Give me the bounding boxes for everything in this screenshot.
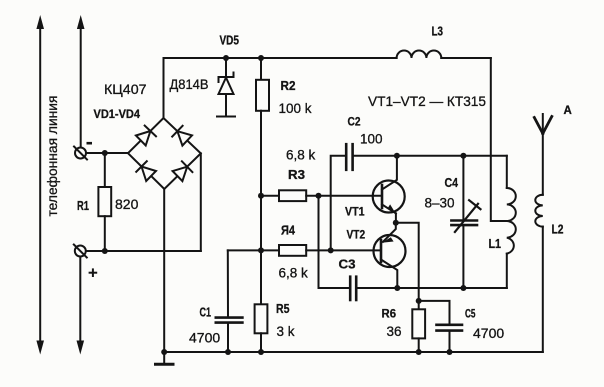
svg-text:36: 36 xyxy=(387,324,402,339)
node R3 left xyxy=(258,193,264,199)
wire bridge top vertex up xyxy=(163,58,165,118)
svg-text:4700: 4700 xyxy=(473,325,504,341)
wire L3 to L1 tap xyxy=(491,58,507,221)
node VT1 emitter / VT2 collector xyxy=(393,220,399,226)
svg-text:L2: L2 xyxy=(552,223,564,237)
zener diode VD5 xyxy=(217,58,235,117)
wire bridge right vertex down xyxy=(200,153,202,251)
resistor R3 xyxy=(261,190,382,201)
emitter wire xyxy=(356,287,507,289)
svg-text:VT1: VT1 xyxy=(345,205,365,219)
wire plus terminal row xyxy=(86,250,201,252)
node C1 bottom xyxy=(225,349,231,355)
svg-text:R5: R5 xyxy=(276,302,290,316)
node R2 top xyxy=(258,55,264,61)
svg-text:100 k: 100 k xyxy=(279,101,312,116)
svg-text:Я4: Я4 xyxy=(281,224,295,238)
svg-text:A: A xyxy=(564,105,572,117)
resistor R5 xyxy=(255,304,268,352)
svg-text:C2: C2 xyxy=(348,115,361,129)
svg-text:3 k: 3 k xyxy=(277,324,295,339)
node ground xyxy=(161,349,167,355)
svg-text:R6: R6 xyxy=(382,307,397,321)
node R5 bottom xyxy=(258,349,264,355)
node R6 bottom xyxy=(416,349,422,355)
wire bridge bottom vertex down to ground rail xyxy=(163,189,165,352)
transistor VT2 xyxy=(374,223,406,288)
tank top wire xyxy=(353,155,507,157)
variable capacitor C4 xyxy=(451,156,480,288)
svg-text:6,8 k: 6,8 k xyxy=(286,148,316,163)
svg-text:VT1–VT2 — КТ315: VT1–VT2 — КТ315 xyxy=(368,93,486,109)
resistor R4 xyxy=(228,245,381,256)
svg-text:8–30: 8–30 xyxy=(425,196,455,211)
resistor R6 xyxy=(412,301,425,352)
node R3-VT1 base / C3 branch xyxy=(316,193,322,199)
svg-text:телефонная линия: телефонная линия xyxy=(44,96,60,217)
inductor L1 xyxy=(507,156,516,288)
terminal plus xyxy=(74,245,87,258)
svg-text:КЦ407: КЦ407 xyxy=(104,81,147,97)
svg-text:C4: C4 xyxy=(445,176,459,190)
node C2-VT2 base xyxy=(328,247,334,253)
top supply wire xyxy=(164,57,397,59)
diode VD4 (bottom-right) xyxy=(173,161,193,181)
svg-text:Д814В: Д814В xyxy=(170,77,209,92)
telephone line arrow 1 xyxy=(36,15,44,355)
svg-text:L3: L3 xyxy=(432,25,444,39)
node VD5 top xyxy=(223,55,229,61)
transistor VT1 xyxy=(373,156,405,223)
svg-text:R2: R2 xyxy=(281,79,296,93)
telephone line arrow 2 (upper segment) xyxy=(77,15,85,147)
inductor L2 xyxy=(535,195,543,227)
node R1 bottom xyxy=(102,248,108,254)
wire C2 branch vertical xyxy=(331,156,347,251)
label minus xyxy=(87,142,93,145)
wire minus terminal to bridge xyxy=(86,152,128,154)
label plus xyxy=(89,268,98,277)
capacitor C1 xyxy=(216,250,243,352)
wire antenna to L2 xyxy=(542,134,544,195)
svg-text:C5: C5 xyxy=(465,307,476,321)
diode bridge VD1-VD4 frame xyxy=(128,118,201,189)
diode VD2 (top-right) xyxy=(172,126,192,146)
svg-text:R1: R1 xyxy=(77,199,89,213)
svg-text:L1: L1 xyxy=(489,237,502,251)
svg-text:100: 100 xyxy=(360,132,383,147)
node VT2 emitter xyxy=(394,285,400,291)
resistor R2 xyxy=(256,58,269,304)
node C5 bottom xyxy=(447,349,453,355)
wire emitter chain to R6/C5 xyxy=(396,223,419,301)
telephone line arrow 2 (lower segment) xyxy=(77,257,85,355)
svg-text:VD1-VD4: VD1-VD4 xyxy=(94,109,141,121)
capacitor C2 xyxy=(346,144,352,170)
ground symbol xyxy=(156,352,174,364)
node R4 left xyxy=(258,247,264,253)
node R1 top xyxy=(102,150,108,156)
svg-text:6,8 k: 6,8 k xyxy=(279,266,309,281)
node C4 bottom xyxy=(460,285,466,291)
resistor R1 xyxy=(98,153,111,251)
node VT1 collector xyxy=(394,153,400,159)
svg-text:R3: R3 xyxy=(288,168,305,182)
svg-text:VT2: VT2 xyxy=(347,228,366,242)
svg-text:820: 820 xyxy=(115,196,139,212)
svg-text:VD5: VD5 xyxy=(220,34,240,48)
ground rail xyxy=(164,351,543,353)
inductor L3 xyxy=(397,51,442,58)
svg-text:4700: 4700 xyxy=(189,330,220,346)
node C4 top xyxy=(460,153,466,159)
wire L2 down to rail xyxy=(542,227,544,352)
svg-text:C1: C1 xyxy=(200,306,212,320)
capacitor C3 xyxy=(350,277,356,300)
diode VD1 (top-left) xyxy=(136,126,156,146)
antenna A xyxy=(534,114,552,134)
diode VD3 (bottom-left) xyxy=(136,161,156,181)
svg-text:C3: C3 xyxy=(339,257,356,272)
capacitor C5 xyxy=(419,301,462,352)
terminal minus xyxy=(74,147,87,160)
node R6 top xyxy=(416,298,422,304)
wire C3 branch vertical xyxy=(319,196,351,288)
